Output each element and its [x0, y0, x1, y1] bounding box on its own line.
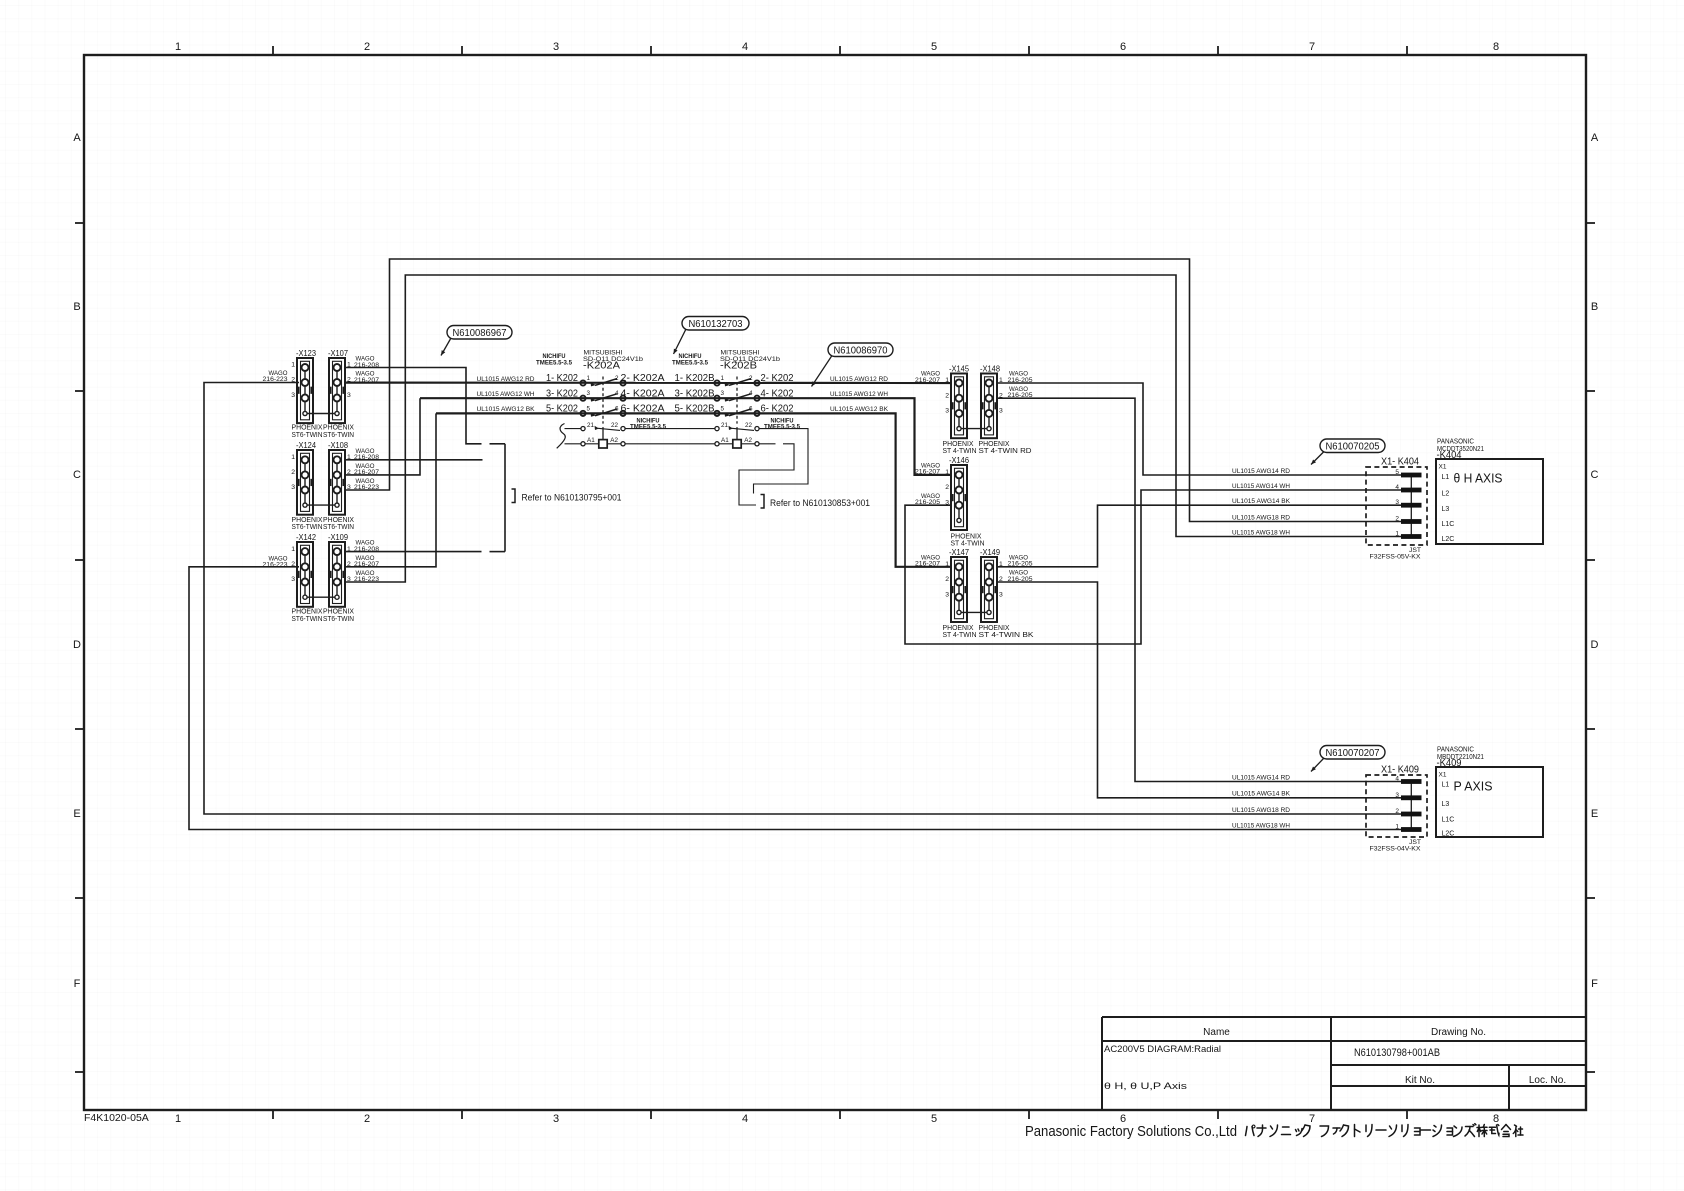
- wire control A1 stub at K202A: [565, 443, 582, 445]
- svg-text:UL1015 AWG14 BK: UL1015 AWG14 BK: [1232, 498, 1290, 505]
- svg-text:TMEE5.5-3.5: TMEE5.5-3.5: [672, 360, 708, 367]
- svg-text:1: 1: [291, 362, 295, 369]
- label PHOENIX ST6-TWIN under X107: [323, 423, 354, 439]
- svg-text:3: 3: [291, 576, 295, 583]
- connector -X146: [945, 455, 969, 530]
- connector JST X1-K409 pin strip: [1395, 776, 1421, 832]
- label PHOENIX ST 4-TWIN BK under X149: [979, 623, 1034, 639]
- label NICHIFU TMEE5.5-3.5 above K202A: [536, 353, 572, 367]
- svg-text:-X108: -X108: [328, 440, 348, 450]
- svg-text:UL1015 AWG18 WH: UL1015 AWG18 WH: [1232, 822, 1290, 829]
- svg-text:Kit No.: Kit No.: [1405, 1075, 1435, 1086]
- svg-text:Refer to N610130795+001: Refer to N610130795+001: [522, 493, 622, 504]
- label WAGO 216-207 at X109 pin2: [354, 555, 379, 568]
- callout oval N610132703: [674, 317, 750, 355]
- svg-text:UL1015 AWG12 BK: UL1015 AWG12 BK: [477, 406, 535, 413]
- svg-text:2: 2: [945, 484, 949, 491]
- connector -X123: [291, 348, 316, 423]
- svg-text:2: 2: [1395, 808, 1399, 815]
- svg-text:TMEE5.5-3.5: TMEE5.5-3.5: [536, 360, 572, 367]
- connector -X108: [328, 440, 351, 515]
- relay K202B coil A1-A2: [715, 437, 759, 448]
- label PHOENIX ST 4-TWIN RD under X148: [979, 439, 1032, 455]
- wire X109 pin3 via inner top bus to K404 pin1: [345, 275, 1403, 582]
- svg-text:UL1015 AWG12 RD: UL1015 AWG12 RD: [830, 376, 888, 383]
- svg-text:21: 21: [721, 422, 729, 429]
- svg-text:L1C: L1C: [1442, 817, 1455, 824]
- svg-text:UL1015 AWG14 RD: UL1015 AWG14 RD: [1232, 468, 1290, 475]
- label PHOENIX ST 4-TWIN under X147: [943, 623, 977, 639]
- svg-text:UL1015 AWG12 BK: UL1015 AWG12 BK: [830, 406, 888, 413]
- connector -X142: [291, 532, 316, 607]
- svg-text:X1- K404: X1- K404: [1381, 457, 1419, 468]
- wire control K202B 22 to refer bracket: [754, 429, 809, 494]
- svg-text:-X107: -X107: [328, 348, 348, 358]
- wire labels into K404: [1232, 468, 1290, 537]
- jumper X123-X107 small pins: [307, 413, 335, 415]
- svg-text:ST 4-TWIN BK: ST 4-TWIN BK: [979, 630, 1034, 639]
- svg-text:B: B: [1591, 301, 1598, 313]
- label PHOENIX ST6-TWIN under X124: [292, 515, 323, 531]
- svg-text:UL1015 AWG14 WH: UL1015 AWG14 WH: [1232, 483, 1290, 490]
- relay K202A auxiliary contact 21-22: [581, 422, 625, 431]
- svg-text:A1: A1: [587, 437, 595, 444]
- svg-text:L2C: L2C: [1442, 536, 1455, 543]
- svg-text:Loc. No.: Loc. No.: [1529, 1075, 1566, 1086]
- svg-text:2: 2: [945, 392, 949, 399]
- servo driver box K404: [1436, 437, 1543, 545]
- svg-text:5: 5: [587, 405, 591, 412]
- svg-text:216-223: 216-223: [263, 562, 288, 569]
- svg-text:4: 4: [1395, 484, 1399, 491]
- svg-text:N610070205: N610070205: [1326, 441, 1380, 452]
- svg-text:A2: A2: [610, 437, 618, 444]
- connector JST X1-K404 pin strip: [1395, 469, 1421, 539]
- svg-text:X1: X1: [1439, 464, 1447, 471]
- label WAGO 216-223 at X109 pin3: [354, 570, 379, 583]
- svg-text:UL1015 AWG18 RD: UL1015 AWG18 RD: [1232, 514, 1290, 521]
- connector -X107: [328, 348, 351, 423]
- relay K202A contact 3-4: [580, 390, 625, 401]
- wire control 22-21 between relays: [625, 428, 715, 430]
- wire X109 pin2 up to BK corner: [345, 413, 437, 566]
- jumper X145-X148 small pins: [961, 428, 987, 430]
- svg-text:C: C: [73, 469, 81, 481]
- callout oval N610086970: [812, 343, 894, 387]
- svg-text:D: D: [1591, 639, 1599, 651]
- callout oval N610070207: [1311, 746, 1385, 772]
- svg-text:A1: A1: [721, 437, 729, 444]
- wire RD phase X107pin2 through contacts to X145 pin1: [345, 382, 952, 385]
- svg-text:1: 1: [1395, 824, 1399, 831]
- labels 1-K202B 3-K202B 5-K202B left of K202B: [675, 372, 715, 414]
- svg-text:Name: Name: [1203, 1027, 1230, 1038]
- svg-text:ST 4-TWIN: ST 4-TWIN: [943, 630, 977, 639]
- svg-text:N610086970: N610086970: [834, 345, 888, 356]
- label WAGO 216-207 at X146 pin1: [915, 462, 940, 475]
- svg-text:-K202B: -K202B: [720, 360, 757, 372]
- svg-text:UL1015 AWG14 BK: UL1015 AWG14 BK: [1232, 791, 1290, 798]
- wire break squiggle at K202A control stubs: [557, 424, 566, 449]
- label PHOENIX ST 4-TWIN under X146: [951, 531, 985, 547]
- svg-text:ST 4-TWIN RD: ST 4-TWIN RD: [979, 446, 1032, 455]
- svg-text:4: 4: [742, 1113, 748, 1125]
- svg-text:1: 1: [175, 1113, 181, 1125]
- label WAGO 216-205 at X146 pin3: [915, 493, 940, 506]
- svg-text:Drawing No.: Drawing No.: [1431, 1027, 1486, 1038]
- frame column ticks: [273, 46, 1407, 1119]
- callout oval N610070205: [1311, 439, 1385, 465]
- svg-text:2: 2: [615, 375, 619, 382]
- label PHOENIX ST6-TWIN under X108: [323, 515, 354, 531]
- svg-text:D: D: [73, 639, 81, 651]
- svg-text:L1C: L1C: [1442, 521, 1455, 528]
- svg-text:A2: A2: [744, 437, 752, 444]
- svg-text:N610086967: N610086967: [453, 328, 507, 339]
- relay K202B contact 1-2: [714, 375, 759, 386]
- label PHOENIX ST6-TWIN under X109: [323, 607, 354, 623]
- jumper X124-X108 small pins: [307, 504, 335, 506]
- svg-text:4: 4: [1395, 776, 1399, 783]
- wire labels into K409: [1232, 774, 1290, 829]
- svg-text:2: 2: [364, 41, 370, 53]
- wire labels UL1015 AWG12 left of K202A: [477, 376, 535, 413]
- wire X109 pin1 with break to refer bracket: [345, 551, 482, 553]
- svg-text:-X123: -X123: [296, 348, 316, 358]
- wire X108 pin3 via top bus to K404 pin2: [345, 259, 1403, 522]
- label WAGO 216-207 at X107 pin2: [354, 371, 379, 384]
- svg-text:ST6-TWIN: ST6-TWIN: [323, 522, 354, 531]
- relay K202A coil A1-A2: [581, 437, 625, 448]
- connector -X109: [328, 532, 351, 607]
- connector -X149: [980, 547, 1003, 622]
- wire control K202B A2 with break to refer bracket: [759, 443, 776, 445]
- label PHOENIX ST6-TWIN under X123: [292, 423, 323, 439]
- svg-text:7: 7: [1309, 41, 1315, 53]
- wire X142 pin2 long route to K409 pin1: [189, 567, 1402, 830]
- svg-text:3: 3: [1395, 499, 1399, 506]
- wire X108 pin2 up to WH corner: [345, 398, 421, 475]
- svg-text:6: 6: [615, 405, 619, 412]
- wire X148 pin2 long drop to K409 pin4: [997, 398, 1402, 781]
- label MITSUBISHI SD-Q11 DC24V1b -K202B: [720, 350, 780, 372]
- svg-text:P AXIS: P AXIS: [1454, 780, 1493, 794]
- svg-text:X1: X1: [1439, 772, 1447, 779]
- label WAGO 216-207 at X147 pin1: [915, 554, 940, 567]
- relay K202B contact 3-4: [714, 390, 759, 401]
- svg-text:-X149: -X149: [980, 547, 1000, 557]
- svg-text:1: 1: [175, 41, 181, 53]
- label WAGO 216-207 at X108 pin2: [354, 463, 379, 476]
- svg-text:-X148: -X148: [980, 363, 1000, 373]
- svg-text:4: 4: [615, 390, 619, 397]
- svg-text:ST6-TWIN: ST6-TWIN: [323, 614, 354, 623]
- svg-text:2: 2: [291, 469, 295, 476]
- wire labels UL1015 AWG12 right of K202B: [830, 376, 888, 413]
- svg-text:AC200V5 DIAGRAM:Radial: AC200V5 DIAGRAM:Radial: [1104, 1044, 1221, 1055]
- svg-text:ST6-TWIN: ST6-TWIN: [323, 430, 354, 439]
- labels 2-K202 4-K202 6-K202 right of K202B: [761, 372, 794, 414]
- svg-text:3: 3: [347, 392, 351, 399]
- svg-text:2: 2: [749, 375, 753, 382]
- svg-text:22: 22: [745, 422, 753, 429]
- callout oval N610086967: [441, 326, 512, 356]
- wire X107 pin1 to refer bracket via corner: [345, 368, 482, 444]
- frame column labels 1-8: [175, 41, 1499, 1125]
- svg-text:8: 8: [1493, 1113, 1499, 1125]
- relay K202B auxiliary contact 21-22: [715, 422, 759, 431]
- svg-text:L2C: L2C: [1442, 831, 1455, 838]
- svg-text:-X124: -X124: [296, 440, 316, 450]
- label WAGO 216-207 at X145 pin1: [915, 371, 940, 384]
- svg-text:3: 3: [721, 390, 725, 397]
- connector JST X1-K409 dashed shell: [1366, 775, 1427, 837]
- svg-text:4: 4: [742, 41, 748, 53]
- wire X149 pin1 up to K404 pin3: [997, 505, 1402, 567]
- svg-text:1: 1: [587, 375, 591, 382]
- svg-text:-X147: -X147: [949, 547, 969, 557]
- svg-text:F: F: [74, 978, 81, 990]
- svg-text:L3: L3: [1442, 506, 1450, 513]
- svg-text:7: 7: [1309, 1113, 1315, 1125]
- label WAGO 216-205 at X148 pin2: [1008, 386, 1033, 399]
- connector -X147: [945, 547, 969, 622]
- relay contact block K202A linkage: [602, 377, 604, 440]
- label WAGO 216-208 at X107 pin1: [354, 356, 379, 369]
- connector -X145: [945, 363, 969, 438]
- svg-text:1: 1: [721, 375, 725, 382]
- svg-text:3: 3: [999, 591, 1003, 598]
- label JST F32FSS-04V-KX: [1370, 839, 1422, 853]
- svg-text:6: 6: [749, 405, 753, 412]
- label WAGO 216-223 at X108 pin3: [354, 478, 379, 491]
- svg-text:-X142: -X142: [296, 532, 316, 542]
- svg-text:5: 5: [721, 405, 725, 412]
- wire X148 pin1 to K404 pin5: [997, 383, 1402, 475]
- svg-text:3: 3: [1395, 792, 1399, 799]
- connector JST X1-K404 dashed shell: [1366, 467, 1427, 545]
- svg-text:3: 3: [291, 392, 295, 399]
- svg-text:θ H AXIS: θ H AXIS: [1454, 472, 1503, 486]
- svg-text:3: 3: [553, 1113, 559, 1125]
- svg-text:6: 6: [1120, 41, 1126, 53]
- footer company name japanese (drawn glyphs): [1246, 1124, 1524, 1137]
- svg-text:ST6-TWIN: ST6-TWIN: [292, 614, 323, 623]
- svg-text:5: 5: [931, 1113, 937, 1125]
- svg-text:UL1015 AWG18 RD: UL1015 AWG18 RD: [1232, 807, 1290, 814]
- svg-text:2: 2: [945, 576, 949, 583]
- label WAGO 216-205 at X149 pin2: [1008, 570, 1033, 583]
- svg-text:-K404: -K404: [1437, 449, 1462, 461]
- svg-text:UL1015 AWG14 RD: UL1015 AWG14 RD: [1232, 774, 1290, 781]
- svg-text:L2: L2: [1442, 490, 1450, 497]
- svg-text:B: B: [73, 301, 80, 313]
- svg-text:8: 8: [1493, 41, 1499, 53]
- wire X123 pin2 long route to K409 pin2: [204, 383, 1402, 815]
- svg-text:Refer to N610130853+001: Refer to N610130853+001: [770, 498, 870, 509]
- svg-text:UL1015 AWG12 WH: UL1015 AWG12 WH: [830, 391, 888, 398]
- label WAGO 216-223 at X123: [263, 370, 288, 383]
- svg-text:N610070207: N610070207: [1326, 748, 1380, 759]
- svg-text:L1: L1: [1442, 782, 1450, 789]
- svg-text:1: 1: [291, 454, 295, 461]
- frame row labels A-F: [73, 132, 1599, 990]
- svg-text:L3: L3: [1442, 801, 1450, 808]
- labels 1-K202 3-K202 5-K202 left of K202A: [546, 372, 578, 414]
- svg-text:3: 3: [945, 408, 949, 415]
- label PHOENIX ST 4-TWIN under X145: [943, 439, 977, 455]
- svg-text:2: 2: [364, 1113, 370, 1125]
- svg-text:F32FSS-04V-KX: F32FSS-04V-KX: [1370, 846, 1421, 853]
- svg-text:-X145: -X145: [949, 363, 969, 373]
- svg-text:5: 5: [931, 41, 937, 53]
- label WAGO 216-208 at X108 pin1: [354, 448, 379, 461]
- refer note bracket 2: [761, 495, 765, 509]
- svg-text:3: 3: [587, 390, 591, 397]
- svg-text:L1: L1: [1442, 474, 1450, 481]
- svg-text:21: 21: [587, 422, 595, 429]
- relay K202B contact 5-6: [714, 405, 759, 416]
- label NICHIFU TMEE5.5-3.5 right of K202A: [630, 417, 666, 430]
- svg-text:-X146: -X146: [949, 455, 969, 465]
- jumper X147-X149 small pins: [961, 611, 987, 613]
- svg-text:3: 3: [999, 408, 1003, 415]
- svg-text:F32FSS-05V-KX: F32FSS-05V-KX: [1370, 554, 1421, 561]
- label PHOENIX ST6-TWIN under X142: [292, 607, 323, 623]
- connector -X124: [291, 440, 316, 515]
- wire control A2-A1 between relays: [625, 443, 715, 445]
- svg-text:1: 1: [1395, 531, 1399, 538]
- svg-text:E: E: [73, 808, 80, 820]
- wire X108 pin1 ending in break: [345, 459, 483, 461]
- relay contact block K202B linkage: [736, 377, 738, 440]
- wire X146 pin3 loop to K404 pin4: [905, 490, 1402, 644]
- svg-text:A: A: [1591, 132, 1599, 144]
- servo driver box K409: [1436, 745, 1543, 838]
- connector -X148: [980, 363, 1003, 438]
- relay K202A contact 5-6: [580, 405, 625, 416]
- wire control 21 stub at K202A: [565, 428, 582, 430]
- svg-text:4: 4: [749, 390, 753, 397]
- refer bracket 1 vertical: [504, 444, 506, 552]
- label WAGO 216-205 at X148 pin1: [1008, 371, 1033, 384]
- relay K202A contact 1-2: [580, 375, 625, 386]
- svg-text:θ H, θ U,P Axis: θ H, θ U,P Axis: [1104, 1081, 1187, 1092]
- svg-text:3: 3: [553, 41, 559, 53]
- svg-text:X1- K409: X1- K409: [1381, 765, 1419, 776]
- svg-text:F4K1020-05A: F4K1020-05A: [84, 1112, 149, 1124]
- svg-text:A: A: [73, 132, 81, 144]
- refer note bracket 1: [512, 489, 516, 503]
- svg-text:-K409: -K409: [1437, 757, 1462, 769]
- label WAGO 216-223 at X142: [263, 556, 288, 569]
- svg-text:Panasonic Factory Solutions Co: Panasonic Factory Solutions Co.,Ltd: [1025, 1123, 1237, 1140]
- label MITSUBISHI SD-Q11 DC24V1b -K202A: [583, 350, 643, 372]
- svg-text:TMEE5.5-3.5: TMEE5.5-3.5: [764, 423, 800, 430]
- svg-text:-K202A: -K202A: [583, 360, 620, 372]
- drawing border frame: [84, 55, 1586, 1110]
- title block grid: [1102, 1017, 1586, 1110]
- svg-text:22: 22: [611, 422, 619, 429]
- wire X149 pin2 drop to K409 pin3: [997, 582, 1402, 798]
- svg-text:2: 2: [1395, 516, 1399, 523]
- svg-text:N610132703: N610132703: [689, 319, 743, 330]
- svg-text:C: C: [1591, 469, 1599, 481]
- svg-text:1: 1: [291, 546, 295, 553]
- label NICHIFU TMEE5.5-3.5 right of K202B: [764, 417, 800, 430]
- label WAGO 216-205 at X149 pin1: [1008, 554, 1033, 567]
- svg-text:F: F: [1591, 978, 1598, 990]
- label JST F32FSS-05V-KX: [1370, 547, 1422, 561]
- svg-text:3: 3: [945, 591, 949, 598]
- svg-text:ST6-TWIN: ST6-TWIN: [292, 522, 323, 531]
- svg-text:UL1015 AWG18 WH: UL1015 AWG18 WH: [1232, 529, 1290, 536]
- label WAGO 216-208 at X109 pin1: [354, 540, 379, 553]
- label NICHIFU TMEE5.5-3.5 above K202B: [672, 353, 708, 367]
- svg-text:E: E: [1591, 808, 1598, 820]
- frame row ticks: [75, 223, 1595, 1072]
- jumper X142-X109 small pins: [307, 596, 335, 598]
- svg-text:3: 3: [291, 484, 295, 491]
- svg-text:5: 5: [1395, 469, 1399, 476]
- wire WH phase through contacts to X146 pin1: [420, 398, 951, 475]
- svg-text:-X109: -X109: [328, 532, 348, 542]
- svg-text:UL1015 AWG12 WH: UL1015 AWG12 WH: [477, 391, 535, 398]
- svg-text:N610130798+001AB: N610130798+001AB: [1354, 1047, 1440, 1059]
- labels 2-K202A 4-K202A 6-K202A right of K202A: [621, 372, 665, 414]
- wire BK phase through contacts to X147 pin1: [436, 413, 951, 566]
- svg-text:ST6-TWIN: ST6-TWIN: [292, 430, 323, 439]
- svg-text:TMEE5.5-3.5: TMEE5.5-3.5: [630, 423, 666, 430]
